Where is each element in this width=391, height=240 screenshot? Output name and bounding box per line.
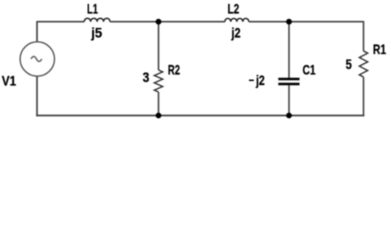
- svg-text:R2: R2: [168, 62, 180, 78]
- wire top-left segment: [37, 21, 84, 23]
- wire top-middle segment: [110, 21, 225, 23]
- node junction top R2: [156, 19, 162, 25]
- wire C1 branch upper: [288, 22, 290, 78]
- svg-text:j2: j2: [231, 25, 241, 41]
- wire bottom: [36, 115, 364, 117]
- inductor L1: [84, 18, 110, 21]
- svg-text:C1: C1: [303, 62, 316, 78]
- wire right lower: [363, 77, 365, 116]
- voltage source V1: [20, 42, 54, 76]
- resistor R2: [154, 70, 162, 92]
- svg-text:3: 3: [143, 69, 150, 85]
- svg-text:5: 5: [346, 56, 352, 72]
- svg-text:V1: V1: [2, 73, 17, 89]
- wire right upper: [363, 21, 365, 51]
- wire C1 branch lower: [288, 85, 290, 116]
- capacitor C1: [278, 78, 299, 81]
- inductor L2: [225, 18, 249, 21]
- wire left lower: [36, 76, 38, 116]
- svg-text:j5: j5: [90, 25, 102, 41]
- wire top-right segment: [249, 21, 364, 23]
- wire R2 branch upper: [158, 22, 160, 70]
- svg-text:j2: j2: [255, 72, 265, 88]
- wire left upper: [36, 21, 38, 42]
- svg-text:L1: L1: [87, 1, 98, 17]
- svg-text:R1: R1: [373, 41, 386, 57]
- value -j2: [249, 79, 254, 81]
- node junction bottom R2: [156, 113, 162, 119]
- resistor R1: [359, 51, 367, 77]
- wire R2 branch lower: [158, 92, 160, 116]
- node junction bottom C1: [286, 113, 292, 119]
- node junction top C1: [286, 19, 292, 25]
- sine symbol: [31, 56, 42, 61]
- svg-text:L2: L2: [228, 1, 240, 17]
